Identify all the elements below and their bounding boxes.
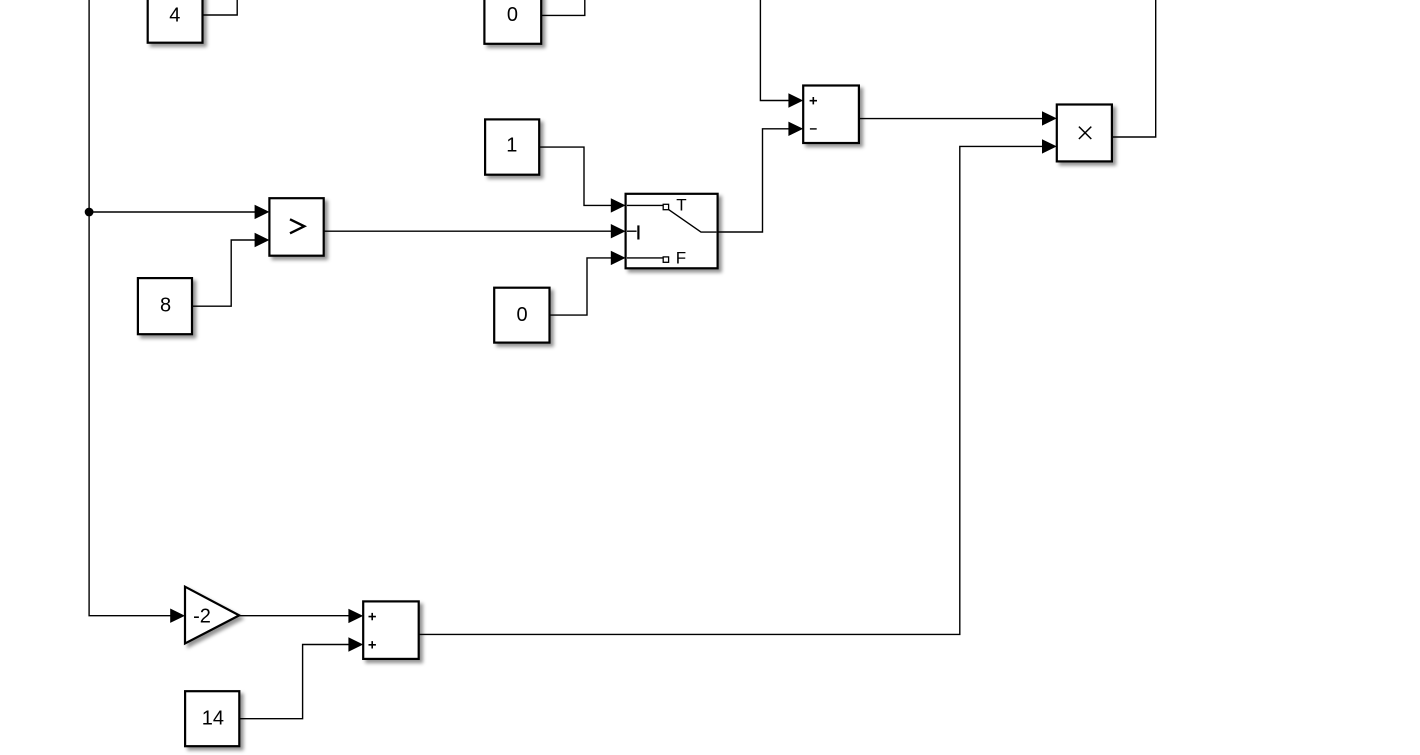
svg-text:1: 1 [506,135,517,157]
svg-text:-2: -2 [193,605,211,627]
svg-text:T: T [676,195,686,214]
svg-text:8: 8 [160,295,171,317]
svg-text:F: F [676,248,686,267]
svg-text:4: 4 [169,5,180,27]
svg-text:0: 0 [517,304,528,326]
svg-text:0: 0 [507,4,518,26]
svg-text:14: 14 [202,707,224,729]
